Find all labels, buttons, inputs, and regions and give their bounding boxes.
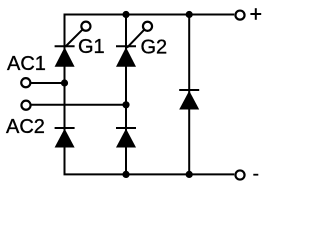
svg-text:G2: G2 <box>141 37 168 59</box>
svg-text:AC2: AC2 <box>6 116 45 138</box>
svg-text:G1: G1 <box>78 36 105 58</box>
svg-text:AC1: AC1 <box>7 53 46 75</box>
